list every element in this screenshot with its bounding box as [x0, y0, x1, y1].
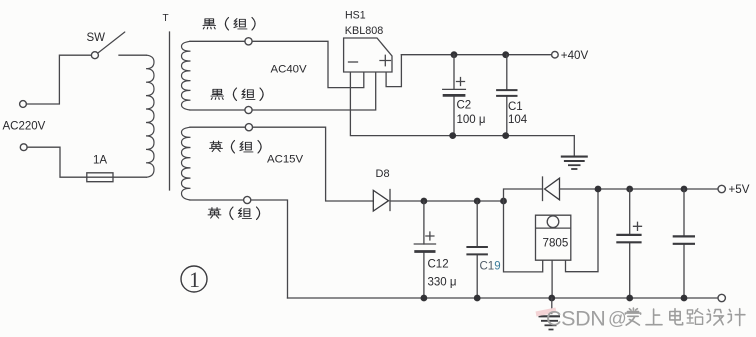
wire yellow bottom to bottom rail	[190, 200, 288, 298]
node C19 bottom	[474, 295, 481, 302]
terminal +5V	[718, 185, 725, 192]
+40V rail	[401, 54, 551, 56]
transformer secondary winding yellow (bottom)	[182, 127, 191, 200]
capacitor C12 330u	[423, 201, 425, 298]
svg-text:AC220V: AC220V	[3, 121, 46, 133]
svg-text:1A: 1A	[93, 155, 107, 167]
circled number 1	[181, 266, 207, 292]
svg-text:AC15V: AC15V	[267, 153, 303, 165]
svg-text:C2: C2	[457, 100, 472, 112]
capacitor right	[683, 189, 685, 298]
svg-text:AC40V: AC40V	[271, 64, 307, 76]
wire from top terminal to switch	[26, 55, 91, 104]
svg-text:+5V: +5V	[729, 183, 750, 196]
capacitor electrolytic right	[629, 189, 631, 298]
terminal yellow bottom	[244, 196, 251, 203]
+5V rail	[560, 188, 719, 190]
diode D8	[373, 190, 388, 211]
wire node up to protection diode rail	[504, 189, 543, 201]
svg-text:@: @	[608, 308, 627, 329]
fuse F 1A	[87, 173, 147, 182]
switch SW	[91, 52, 98, 59]
node C2 bottom	[449, 132, 456, 139]
svg-text:7805: 7805	[543, 236, 569, 249]
node C12 top	[421, 198, 428, 205]
node 7805 out	[595, 186, 602, 193]
svg-text:104: 104	[508, 114, 528, 126]
wire black top to bridge	[190, 41, 364, 87]
node cap4 bottom	[681, 295, 688, 302]
terminal yellow top	[245, 124, 252, 131]
svg-text:KBL808: KBL808	[345, 25, 383, 37]
node C2 top	[451, 51, 458, 58]
svg-text:100 μ: 100 μ	[457, 114, 486, 126]
7805 output pin to +5V rail	[566, 189, 599, 272]
bridge plus mark	[380, 55, 391, 65]
node cap4 top	[681, 186, 688, 193]
node C1 bottom	[502, 132, 509, 139]
svg-text:SW: SW	[87, 32, 106, 44]
label hei(zu) top	[203, 18, 255, 31]
bottom rail	[288, 297, 719, 299]
svg-text:C12: C12	[428, 259, 449, 271]
svg-text:1: 1	[189, 267, 200, 292]
svg-text:HS1: HS1	[345, 9, 366, 21]
svg-text:T: T	[163, 13, 169, 24]
transformer core	[169, 32, 171, 190]
capacitor C1 104	[506, 55, 508, 136]
ground (lower)	[551, 298, 553, 314]
label huang(zu) top	[210, 141, 262, 154]
transformer T primary winding	[146, 55, 154, 177]
svg-text:+40V: +40V	[561, 49, 589, 62]
ac input terminal bottom	[20, 144, 27, 151]
rail after D8	[390, 200, 504, 202]
wire from bottom terminal to fuse	[27, 147, 87, 177]
bridge pin plus to +40V rail	[386, 55, 401, 87]
wire black bottom to bridge	[190, 73, 376, 111]
svg-text:CSDN: CSDN	[546, 307, 605, 331]
capacitor C2 100u	[453, 55, 455, 136]
label huang(zu) bottom	[208, 207, 260, 220]
terminal bottom right	[718, 294, 725, 301]
bridge minus mark	[349, 61, 358, 63]
capacitor C19	[476, 201, 478, 298]
terminal +40V	[552, 51, 559, 58]
node C1 top	[502, 51, 509, 58]
svg-text:C19: C19	[480, 261, 501, 273]
regulator U 7805	[536, 215, 571, 260]
svg-text:D8: D8	[376, 168, 390, 180]
svg-text:C1: C1	[508, 101, 523, 113]
bridge rectifier HS1 KBL808	[344, 38, 392, 72]
node input 7805	[500, 198, 507, 205]
node C12 bottom	[421, 295, 428, 302]
wire node down to 7805 input	[504, 201, 543, 272]
wire yellow top to D8	[190, 127, 373, 201]
bridge pin minus to ground rail	[350, 73, 574, 136]
svg-text:330 μ: 330 μ	[428, 277, 457, 289]
terminal black top	[245, 38, 252, 45]
protection diode across 7805	[542, 177, 544, 201]
transformer secondary winding black (top)	[182, 41, 191, 110]
label hei(zu) bottom	[211, 88, 263, 101]
watermark ai shang dian lu she ji	[625, 308, 745, 325]
node C19 top	[474, 198, 481, 205]
terminal black bottom	[245, 106, 252, 113]
ground (upper)	[573, 136, 575, 155]
node cap3 top	[626, 186, 633, 193]
7805 middle pin to ground rail	[551, 260, 553, 298]
ac input terminal top	[20, 101, 27, 108]
node cap3 bottom	[626, 295, 633, 302]
watermark pink mark	[536, 310, 556, 314]
node 7805 gnd	[548, 295, 555, 302]
